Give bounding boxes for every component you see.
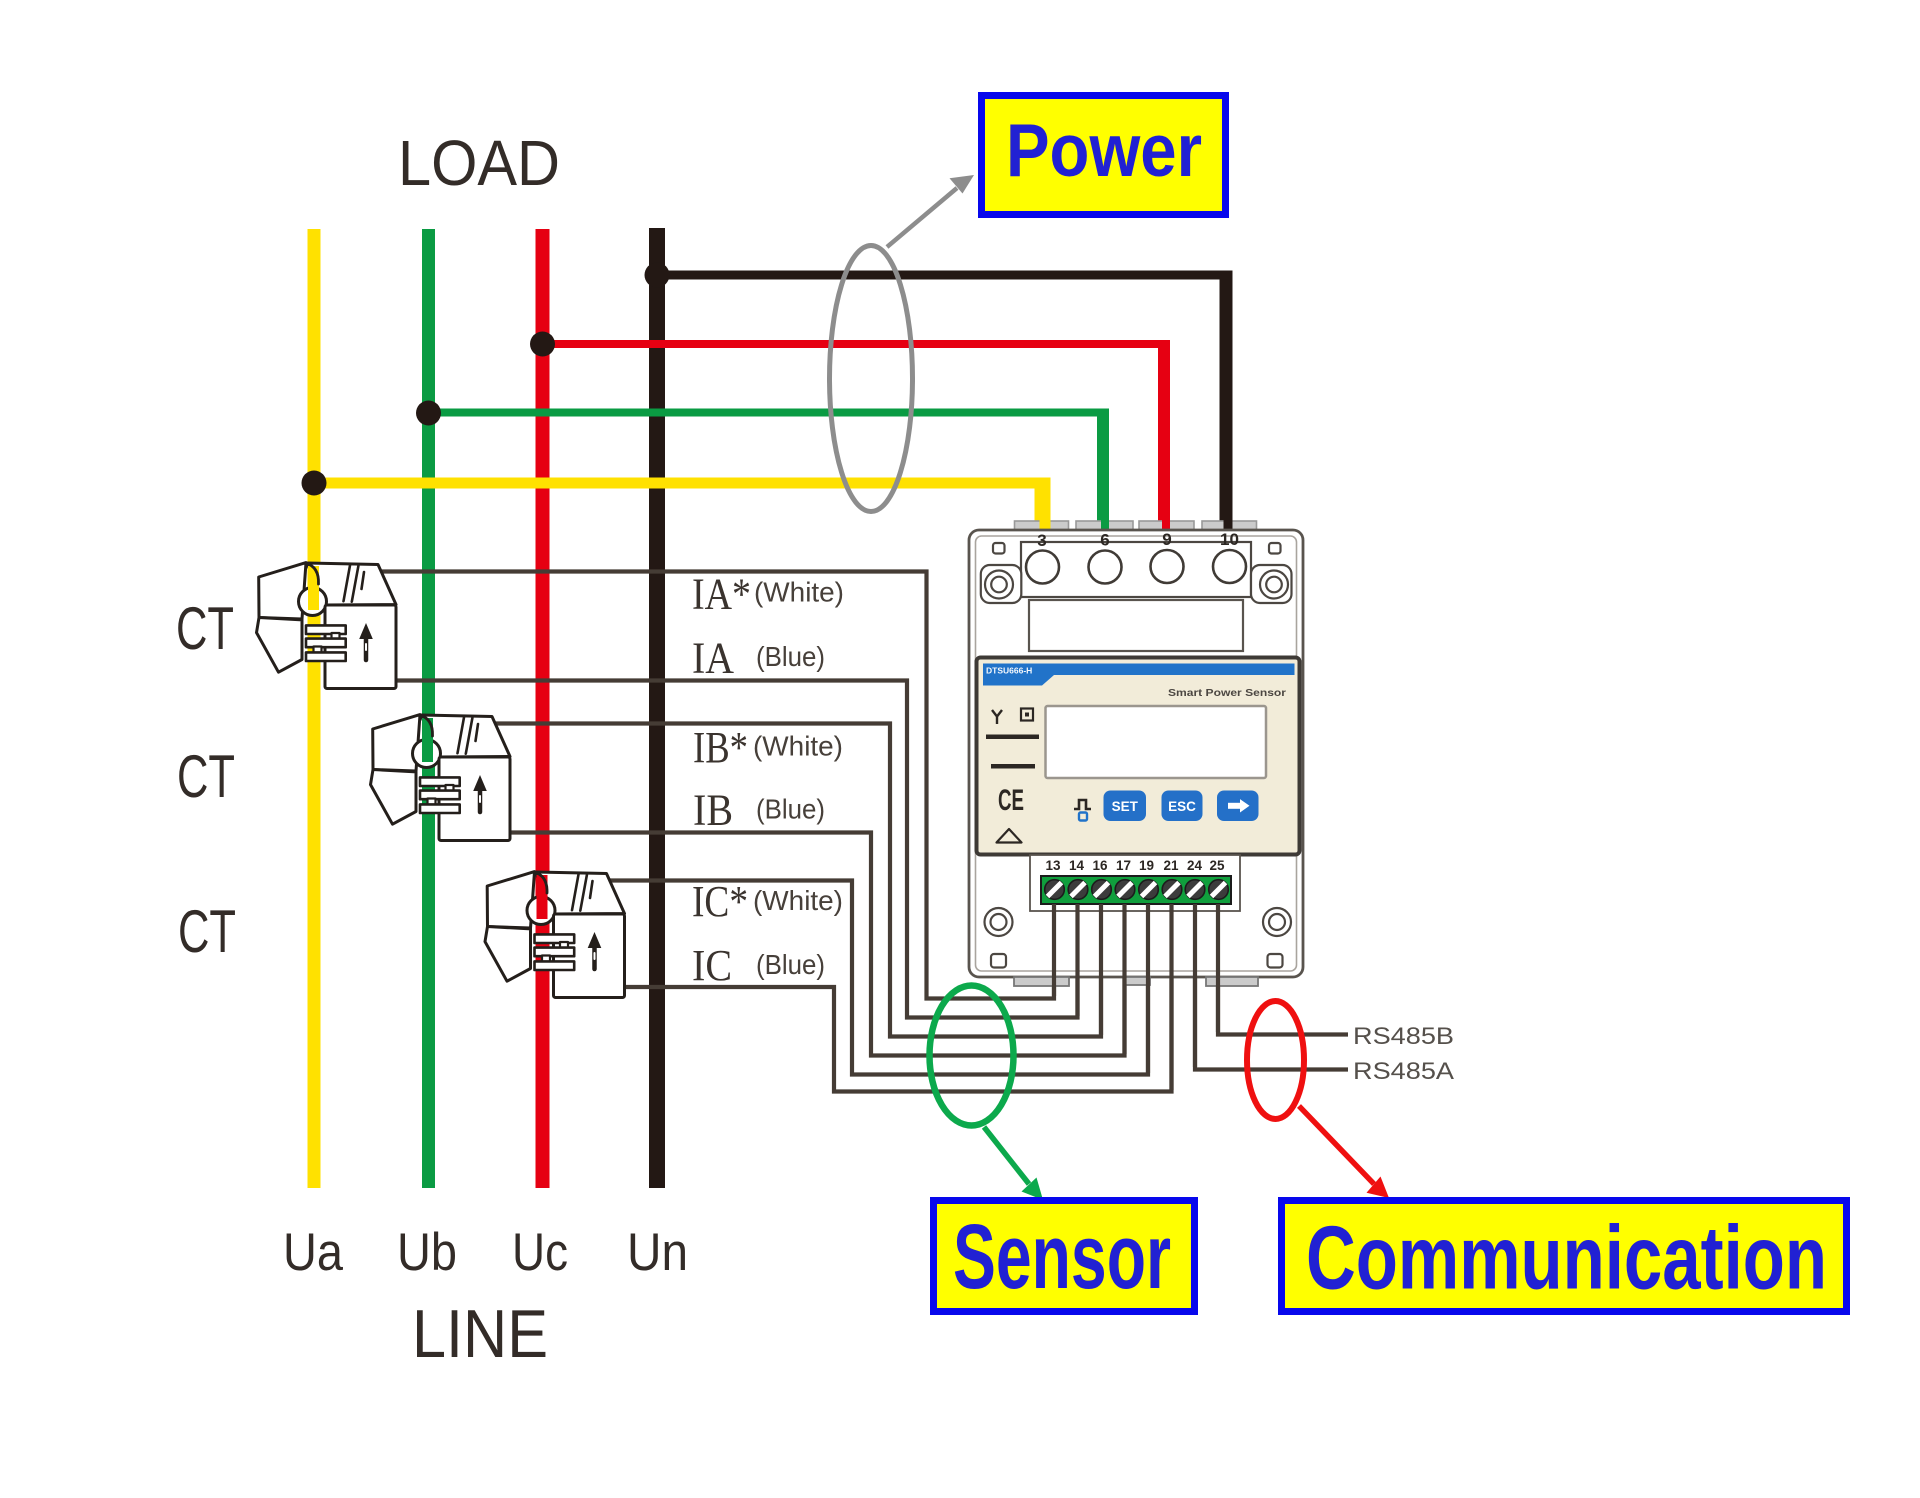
terminal hole 10 xyxy=(1213,550,1246,583)
Communication box xyxy=(1282,1201,1847,1312)
bar 1 xyxy=(986,735,1039,740)
svg-text:Sensor: Sensor xyxy=(953,1206,1171,1308)
bar 2 xyxy=(991,764,1035,769)
svg-text:10: 10 xyxy=(1220,530,1239,549)
terminal screw 19 xyxy=(1139,880,1159,900)
CT A on Ua xyxy=(257,563,397,689)
screw top-right xyxy=(1260,571,1288,599)
svg-text:(Blue): (Blue) xyxy=(756,949,825,980)
junction node on Un xyxy=(645,263,670,288)
terminal hole 9 xyxy=(1151,550,1184,583)
line Uc red vertical xyxy=(536,229,550,1188)
svg-text:Power: Power xyxy=(1006,108,1202,192)
LCD display xyxy=(1046,706,1267,778)
svg-text:(White): (White) xyxy=(753,885,843,916)
small square top-left xyxy=(993,543,1005,554)
warning triangle xyxy=(997,829,1022,843)
svg-text:DTSU666-H: DTSU666-H xyxy=(986,666,1032,676)
svg-text:25: 25 xyxy=(1209,858,1225,873)
svg-text:SET: SET xyxy=(1112,799,1139,814)
blue header bar xyxy=(983,664,1295,686)
terminal hole 6 xyxy=(1089,551,1122,584)
Sensor box xyxy=(934,1201,1195,1312)
power wire A yellow branch xyxy=(314,483,1045,531)
arrow to Communication box xyxy=(1299,1106,1374,1184)
wire IA xyxy=(394,681,1078,1018)
terminal cover tab 10 xyxy=(1202,521,1257,531)
sensor loop green ellipse xyxy=(930,986,1014,1126)
pulse icon xyxy=(1074,800,1091,809)
wire IA* xyxy=(378,572,1054,999)
wire RS485A xyxy=(1195,900,1348,1070)
button arrow xyxy=(1217,791,1259,822)
svg-text:RS485A: RS485A xyxy=(1353,1058,1454,1085)
power wire N black branch xyxy=(657,275,1228,531)
screw notch right xyxy=(1251,565,1292,603)
svg-text:LOAD: LOAD xyxy=(398,127,560,199)
line Ua yellow vertical xyxy=(308,229,321,1188)
svg-text:Uc: Uc xyxy=(512,1223,568,1282)
terminal hole 3 xyxy=(1026,551,1059,584)
svg-text:14: 14 xyxy=(1069,858,1085,873)
terminal screw 21 xyxy=(1162,880,1182,900)
svg-text:13: 13 xyxy=(1045,858,1061,873)
svg-text:(Blue): (Blue) xyxy=(756,794,825,825)
bottom recess panel xyxy=(1030,855,1240,911)
svg-text:LINE: LINE xyxy=(412,1296,548,1372)
terminal screw 25 xyxy=(1209,880,1229,900)
wye icon xyxy=(992,710,1002,724)
arrow to Power box xyxy=(887,188,957,247)
wire end red into tab9 xyxy=(1162,519,1170,531)
inner rectangle below terminals xyxy=(1029,600,1243,651)
svg-text:Ua: Ua xyxy=(283,1223,343,1282)
svg-text:CT: CT xyxy=(177,743,235,810)
wire end green into tab6 xyxy=(1101,519,1109,531)
svg-text:Un: Un xyxy=(627,1223,688,1282)
terminal screw 13 xyxy=(1045,880,1065,900)
terminal cover tab 6 xyxy=(1076,521,1133,531)
svg-text:Smart Power Sensor: Smart Power Sensor xyxy=(1168,687,1286,699)
svg-text:(Blue): (Blue) xyxy=(756,641,825,672)
meter body outline xyxy=(969,530,1303,977)
svg-text:(White): (White) xyxy=(754,577,844,608)
svg-text:IA*: IA* xyxy=(692,570,751,619)
svg-text:IB: IB xyxy=(693,786,733,835)
svg-text:RS485B: RS485B xyxy=(1353,1023,1454,1050)
line Un black vertical xyxy=(649,228,665,1188)
bottom tab right xyxy=(1206,977,1258,986)
svg-text:CT: CT xyxy=(176,595,234,662)
small square bottom-left xyxy=(991,954,1006,968)
wire IC* xyxy=(607,881,1149,1075)
svg-text:16: 16 xyxy=(1092,858,1108,873)
green terminal strip xyxy=(1041,876,1231,904)
svg-text:3: 3 xyxy=(1037,531,1046,550)
wire end yellow into tab3 xyxy=(1040,519,1051,531)
svg-text:9: 9 xyxy=(1162,530,1171,549)
power wire C red branch xyxy=(542,344,1166,531)
face plate xyxy=(977,658,1300,855)
wire RS485B xyxy=(1218,900,1348,1035)
svg-text:17: 17 xyxy=(1116,858,1131,873)
power wire B green branch xyxy=(428,413,1105,532)
svg-text:(White): (White) xyxy=(753,731,843,762)
line Ub green vertical xyxy=(422,229,435,1188)
power loop gray ellipse xyxy=(830,246,913,512)
screw bottom-left xyxy=(985,908,1013,936)
terminal screw 24 xyxy=(1185,880,1205,900)
screw bottom-right xyxy=(1263,908,1291,936)
terminal screw 14 xyxy=(1068,880,1088,900)
svg-text:CE: CE xyxy=(998,784,1024,817)
junction node on Ua xyxy=(302,471,327,496)
svg-text:21: 21 xyxy=(1163,858,1179,873)
svg-text:ESC: ESC xyxy=(1168,799,1196,814)
square icon xyxy=(1021,709,1033,721)
svg-text:CT: CT xyxy=(178,898,236,965)
svg-text:IC*: IC* xyxy=(692,877,748,926)
small square bottom-right xyxy=(1268,954,1283,968)
CT B on Ub xyxy=(371,715,511,841)
svg-text:24: 24 xyxy=(1187,858,1203,873)
svg-text:IA: IA xyxy=(692,634,734,683)
terminal cover tab 9 xyxy=(1139,521,1194,531)
screw notch left xyxy=(981,565,1022,603)
wire IB* xyxy=(492,724,1101,1037)
arrow to Sensor box xyxy=(984,1127,1029,1184)
meter DTSU666-H xyxy=(969,519,1303,986)
junction node on Ub xyxy=(416,401,441,426)
wire IB xyxy=(508,833,1125,1056)
screw top-left xyxy=(985,571,1013,599)
svg-text:Communication: Communication xyxy=(1306,1209,1827,1309)
terminal screw 16 xyxy=(1092,880,1112,900)
bottom tab left xyxy=(1014,977,1069,986)
button SET xyxy=(1104,791,1147,822)
button ESC xyxy=(1162,791,1203,822)
svg-text:Ub: Ub xyxy=(397,1223,457,1282)
Power box xyxy=(982,96,1226,215)
svg-text:19: 19 xyxy=(1139,858,1154,873)
wires from terminals crossing meter bottom xyxy=(1054,904,1218,1090)
wire end black into tab10 xyxy=(1224,519,1233,531)
comm loop red ellipse xyxy=(1247,1001,1304,1119)
bottom tab middle xyxy=(1125,977,1150,985)
junction node on Uc xyxy=(530,332,555,357)
terminal screw 17 xyxy=(1115,880,1135,900)
small square top-right xyxy=(1269,543,1281,554)
CT C on Uc xyxy=(485,872,625,998)
terminal cover tab 3 xyxy=(1015,521,1069,531)
svg-text:IC: IC xyxy=(692,941,732,990)
svg-text:6: 6 xyxy=(1100,531,1109,550)
top terminal strip xyxy=(1021,542,1251,597)
svg-text:IB*: IB* xyxy=(693,723,748,772)
wire IC xyxy=(623,900,1172,1092)
